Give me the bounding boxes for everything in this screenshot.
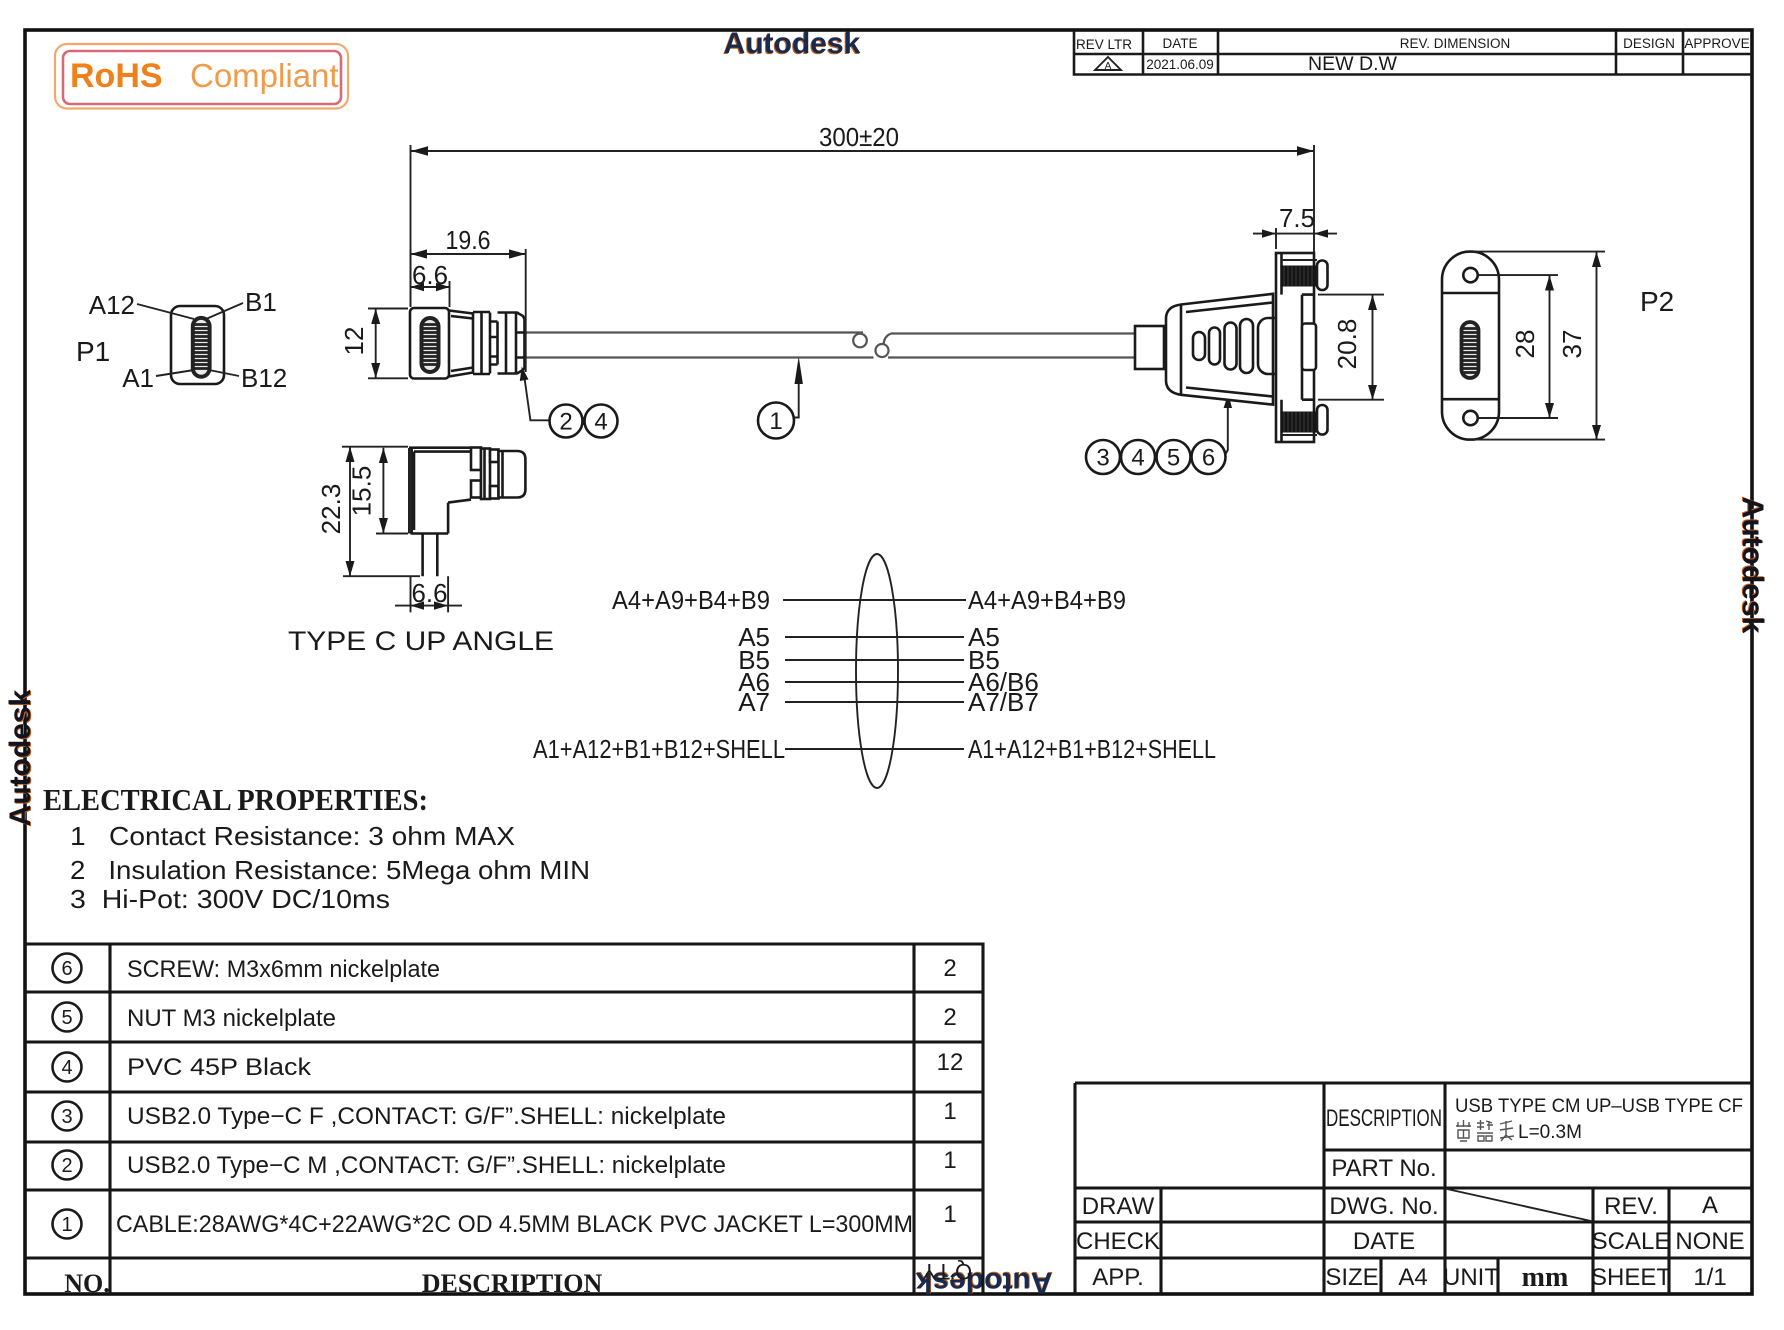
dim 6.6 (up angle) xyxy=(395,576,462,612)
svg-text:1: 1 xyxy=(943,1201,956,1228)
svg-text:2: 2 xyxy=(943,955,956,982)
dim 19.6 xyxy=(411,225,526,372)
svg-text:5: 5 xyxy=(1167,445,1180,472)
svg-text:6: 6 xyxy=(1202,445,1215,472)
ELECTRICAL PROPERTIES xyxy=(43,782,590,914)
end cap xyxy=(516,312,525,374)
svg-text:REV LTR: REV LTR xyxy=(1076,37,1132,52)
svg-text:NONE: NONE xyxy=(1675,1228,1744,1255)
svg-text:DESIGN: DESIGN xyxy=(1623,36,1675,51)
svg-text:A1+A12+B1+B12+SHELL: A1+A12+B1+B12+SHELL xyxy=(968,734,1216,764)
arm bottom xyxy=(448,500,471,503)
dim 15.5 xyxy=(347,448,409,534)
svg-text:PVC 45P Black: PVC 45P Black xyxy=(127,1054,312,1081)
callout bubbles 3 4 5 6 xyxy=(1086,394,1232,475)
BOM table bottom left xyxy=(25,944,983,1298)
svg-text:15.5: 15.5 xyxy=(347,466,377,517)
svg-text:mm: mm xyxy=(1522,1262,1569,1293)
svg-text:1/1: 1/1 xyxy=(1693,1264,1726,1291)
svg-text:12: 12 xyxy=(339,327,369,356)
svg-text:2: 2 xyxy=(943,1004,956,1031)
svg-text:4: 4 xyxy=(1131,445,1144,472)
svg-text:APP.: APP. xyxy=(1092,1264,1144,1291)
dim 6.6 (left connector) xyxy=(411,260,450,307)
svg-text:7.5: 7.5 xyxy=(1279,203,1315,233)
svg-text:SCREW: M3x6mm nickelplate: SCREW: M3x6mm nickelplate xyxy=(127,956,440,983)
P1 face view (left) xyxy=(89,287,288,393)
svg-text:TYPE C UP ANGLE: TYPE C UP ANGLE xyxy=(288,626,554,656)
svg-text:DATE: DATE xyxy=(1162,36,1197,51)
svg-text:APPROVE: APPROVE xyxy=(1684,36,1749,51)
svg-text:B12: B12 xyxy=(241,363,287,393)
svg-text:A: A xyxy=(1105,61,1112,72)
revision table top right xyxy=(1074,31,1752,75)
svg-text:ELECTRICAL PROPERTIES:: ELECTRICAL PROPERTIES: xyxy=(43,782,428,817)
svg-text:2: 2 xyxy=(61,1155,72,1177)
svg-text:REV. DIMENSION: REV. DIMENSION xyxy=(1400,36,1511,51)
dimension 300±20 xyxy=(411,122,1315,307)
svg-text:L=0.3M: L=0.3M xyxy=(1518,1122,1582,1143)
svg-text:A4+A9+B4+B9: A4+A9+B4+B9 xyxy=(968,585,1126,615)
svg-text:DESCRIPTION: DESCRIPTION xyxy=(422,1269,603,1298)
svg-text:1: 1 xyxy=(943,1147,956,1174)
svg-text:USB2.0 Type−C M ,CONTACT:: USB2.0 Type−C M ,CONTACT: G/F”.SHELL: ni… xyxy=(127,1152,726,1179)
svg-text:P2: P2 xyxy=(1640,286,1674,317)
wiring diagram xyxy=(533,554,1216,788)
svg-text:SCALE: SCALE xyxy=(1592,1228,1671,1255)
svg-text:DWG. No.: DWG. No. xyxy=(1329,1193,1438,1220)
Type C up angle connector xyxy=(409,448,525,577)
svg-text:PART No.: PART No. xyxy=(1331,1155,1436,1182)
svg-text:B1: B1 xyxy=(245,287,277,317)
svg-text:DATE: DATE xyxy=(1353,1228,1415,1255)
svg-text:A7/B7: A7/B7 xyxy=(968,687,1039,717)
svg-text:NUT M3 nickelplate: NUT M3 nickelplate xyxy=(127,1005,336,1032)
callout bubble 1 xyxy=(758,357,803,439)
svg-text:DESCRIPTION: DESCRIPTION xyxy=(1326,1105,1442,1132)
svg-text:3: 3 xyxy=(61,1106,72,1128)
Autodesk logo right (rotated) xyxy=(1735,496,1769,634)
svg-text:REV.: REV. xyxy=(1604,1193,1658,1220)
svg-text:19.6: 19.6 xyxy=(446,225,491,255)
svg-text:USB2.0 Type−C F ,CONTACT:: USB2.0 Type−C F ,CONTACT: G/F”.SHELL: ni… xyxy=(127,1103,726,1130)
left connector side view (Type C plug straight) xyxy=(410,308,525,379)
svg-text:37: 37 xyxy=(1557,330,1587,359)
svg-text:A: A xyxy=(1702,1192,1718,1219)
dim 20.8 xyxy=(1318,295,1384,400)
tip xyxy=(499,451,526,498)
svg-text:Compliant: Compliant xyxy=(190,57,339,94)
svg-text:5: 5 xyxy=(61,1007,72,1029)
svg-text:SHEET: SHEET xyxy=(1591,1264,1671,1291)
svg-text:UNIT: UNIT xyxy=(1443,1264,1499,1291)
svg-text:6: 6 xyxy=(61,958,72,980)
svg-text:3: 3 xyxy=(1096,445,1109,472)
collar ribs xyxy=(471,448,481,471)
svg-text:22.3: 22.3 xyxy=(316,484,346,535)
dim 12 xyxy=(339,309,408,379)
Autodesk logo left (rotated) xyxy=(4,689,38,827)
svg-text:1: 1 xyxy=(943,1098,956,1125)
svg-text:A1: A1 xyxy=(122,363,154,393)
body xyxy=(410,308,449,379)
right connector P2 side view xyxy=(1135,253,1328,442)
svg-text:USB TYPE CM UP–USB TYPE C: USB TYPE CM UP–USB TYPE CF xyxy=(1455,1096,1743,1117)
svg-text:3 Hi-Pot: 300V DC/10ms: 3 Hi-Pot: 300V DC/10ms xyxy=(70,884,390,914)
svg-text:300±20: 300±20 xyxy=(819,122,899,152)
dim 28 xyxy=(1477,275,1558,418)
svg-text:2: 2 xyxy=(559,409,572,436)
svg-text:Autodesk: Autodesk xyxy=(724,27,861,60)
title block bottom right xyxy=(1075,1083,1752,1294)
callout bubbles 2 4 xyxy=(520,367,618,438)
svg-text:28: 28 xyxy=(1510,330,1540,359)
svg-text:12: 12 xyxy=(937,1049,964,1076)
svg-text:NEW D.W: NEW D.W xyxy=(1308,53,1398,75)
svg-text:4: 4 xyxy=(594,409,607,436)
svg-text:Autodesk: Autodesk xyxy=(1736,497,1769,634)
svg-text:RoHS: RoHS xyxy=(70,57,163,95)
P2 front view xyxy=(1442,252,1499,440)
ribs xyxy=(473,312,516,374)
svg-text:CABLE:28AWG*4C+22AWG*2C OD 4: CABLE:28AWG*4C+22AWG*2C OD 4.5MM BLACK P… xyxy=(116,1211,913,1238)
svg-text:2 Insulation Resistance: 5Me: 2 Insulation Resistance: 5Mega ohm MIN xyxy=(70,855,590,885)
svg-text:A1+A12+B1+B12+SHELL: A1+A12+B1+B12+SHELL xyxy=(533,734,785,764)
screws xyxy=(1281,260,1317,435)
svg-text:20.8: 20.8 xyxy=(1332,319,1362,370)
body xyxy=(1166,294,1273,405)
flange xyxy=(1276,253,1314,442)
svg-text:A7: A7 xyxy=(738,687,770,717)
RoHS badge xyxy=(55,44,348,109)
slots xyxy=(1193,332,1205,360)
svg-text:P1: P1 xyxy=(76,336,110,367)
svg-text:DRAW: DRAW xyxy=(1082,1193,1155,1220)
svg-text:2021.06.09: 2021.06.09 xyxy=(1146,57,1214,72)
cable with break xyxy=(526,333,1135,358)
Autodesk logo bottom (inverted) xyxy=(915,1265,1053,1299)
entry rect xyxy=(1135,326,1164,369)
svg-text:A4+A9+B4+B9: A4+A9+B4+B9 xyxy=(612,585,770,615)
svg-text:SIZE: SIZE xyxy=(1325,1264,1378,1291)
svg-text:Autodesk: Autodesk xyxy=(4,689,37,826)
svg-text:1: 1 xyxy=(61,1214,72,1236)
cable stub xyxy=(423,534,438,577)
vertical body xyxy=(408,448,413,534)
svg-text:6.6: 6.6 xyxy=(412,260,448,290)
svg-text:CHECK: CHECK xyxy=(1076,1228,1160,1255)
svg-text:Q’TY: Q’TY xyxy=(922,1259,972,1284)
svg-text:A12: A12 xyxy=(89,290,135,320)
svg-text:NO.: NO. xyxy=(64,1269,110,1298)
svg-text:4: 4 xyxy=(61,1057,72,1079)
pill with hatch xyxy=(422,318,439,372)
taper xyxy=(449,311,473,377)
dim 22.3 xyxy=(316,447,420,577)
svg-text:A4: A4 xyxy=(1398,1264,1427,1291)
dim 7.5 xyxy=(1253,203,1337,249)
svg-text:1 Contact Resistance: 3 ohm: 1 Contact Resistance: 3 ohm MAX xyxy=(70,821,515,851)
svg-text:6.6: 6.6 xyxy=(412,578,448,608)
svg-text:1: 1 xyxy=(769,408,782,435)
dim 37 xyxy=(1473,252,1605,440)
